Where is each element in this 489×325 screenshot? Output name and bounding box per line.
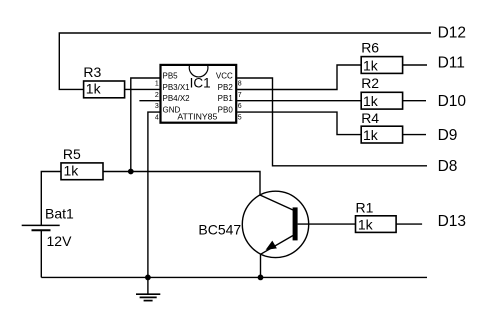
resistor R4 xyxy=(361,110,402,143)
pin number 3 xyxy=(155,103,159,110)
svg-text:VCC: VCC xyxy=(216,71,233,80)
svg-text:3: 3 xyxy=(155,103,159,110)
pin number 6 xyxy=(238,103,242,110)
wire: R2 to D10 xyxy=(403,100,426,102)
wire: R5 right to transistor collector xyxy=(103,172,260,196)
svg-text:D8: D8 xyxy=(438,158,458,175)
pin number 8 xyxy=(238,80,242,87)
node junction dot emitter rail xyxy=(258,275,264,281)
pin number 4 xyxy=(155,115,159,122)
svg-text:2: 2 xyxy=(155,92,159,99)
wire: IC pin 7 (PB2) to R6 xyxy=(237,65,361,90)
wire: D12 net (top rail to R3 left) xyxy=(59,33,431,89)
svg-text:R3: R3 xyxy=(83,64,101,80)
node D8 xyxy=(438,158,458,175)
svg-text:8: 8 xyxy=(238,80,242,87)
wire: R3 right to IC pin 2 xyxy=(125,88,160,90)
svg-text:D11: D11 xyxy=(438,54,465,71)
node D11 xyxy=(438,54,465,71)
svg-text:R6: R6 xyxy=(361,39,379,55)
wire: battery + to R5 left xyxy=(41,172,61,226)
pin label PB2 xyxy=(218,83,234,92)
svg-text:D13: D13 xyxy=(438,213,466,230)
op-amp U1: IC1 ATTINY85 body xyxy=(161,65,237,123)
pin label VCC xyxy=(216,71,233,80)
pin label PB4/X2 xyxy=(163,94,191,103)
pin label PB0 xyxy=(218,106,234,115)
svg-text:1k: 1k xyxy=(86,81,102,97)
resistor R6 xyxy=(361,39,402,73)
wire: IC pin 4 (GND) down to ground rail xyxy=(148,112,160,277)
node junction dot PB5/R5 xyxy=(128,169,134,175)
wire: R1 to D13 xyxy=(396,223,422,225)
wire: base to R1 xyxy=(298,223,356,225)
svg-text:R2: R2 xyxy=(361,75,379,91)
wire: R4 to D9 xyxy=(403,134,426,136)
svg-text:D9: D9 xyxy=(438,127,458,144)
transistor Q1 BC547 xyxy=(198,191,308,257)
pin label GND xyxy=(163,106,181,115)
svg-text:PB2: PB2 xyxy=(218,83,234,92)
wire: IC pin 1 (PB5) stub down to node xyxy=(131,78,160,172)
pin label PB1 xyxy=(218,94,234,103)
node D10 xyxy=(438,93,467,110)
pin label PB5 xyxy=(163,71,179,80)
svg-text:1k: 1k xyxy=(363,93,379,109)
wire: IC pin 6 (PB1) to R2 xyxy=(237,100,361,102)
resistor R5 xyxy=(61,146,103,180)
svg-text:1: 1 xyxy=(155,80,159,87)
svg-text:6: 6 xyxy=(238,103,242,110)
wire: R6 to D11 xyxy=(403,64,427,66)
svg-text:PB5: PB5 xyxy=(163,71,179,80)
wire: IC pin 3 (PB4/X2) stub xyxy=(139,100,159,102)
svg-text:4: 4 xyxy=(155,115,159,122)
pin label PB3/X1 xyxy=(163,83,191,92)
svg-text:PB0: PB0 xyxy=(218,106,234,115)
node D9 xyxy=(438,127,458,144)
resistor R2 xyxy=(361,75,402,109)
battery Bat1 xyxy=(22,205,74,249)
wire: IC pin 5 (PB0) to R4 xyxy=(237,112,361,135)
svg-text:R4: R4 xyxy=(361,110,379,126)
svg-text:PB4/X2: PB4/X2 xyxy=(163,94,191,103)
svg-text:ATTINY85: ATTINY85 xyxy=(177,111,217,121)
node junction dot GND rail xyxy=(145,275,151,281)
ground xyxy=(136,277,160,300)
svg-text:PB1: PB1 xyxy=(218,94,234,103)
wire: IC pin 8 (VCC) to D8 xyxy=(237,78,427,166)
svg-text:IC1: IC1 xyxy=(190,75,211,90)
pin number 2 xyxy=(155,92,159,99)
pin number 5 xyxy=(238,115,242,122)
svg-text:PB3/X1: PB3/X1 xyxy=(163,83,191,92)
svg-text:BC547: BC547 xyxy=(198,222,241,238)
svg-text:D12: D12 xyxy=(438,24,466,41)
svg-text:Bat1: Bat1 xyxy=(45,205,74,221)
resistor R1 xyxy=(356,200,397,233)
wire: bottom ground rail xyxy=(41,276,427,278)
node D13 xyxy=(438,213,466,230)
svg-text:7: 7 xyxy=(238,92,242,99)
pin number 1 xyxy=(155,80,159,87)
wire: battery - down to ground rail xyxy=(40,230,42,277)
svg-text:D10: D10 xyxy=(438,93,467,110)
node D12 xyxy=(438,24,466,41)
wire: emitter to rail xyxy=(260,254,262,277)
svg-text:R1: R1 xyxy=(356,200,374,216)
svg-text:5: 5 xyxy=(238,115,242,122)
svg-text:1k: 1k xyxy=(358,216,374,232)
svg-text:1k: 1k xyxy=(363,127,379,143)
svg-text:12V: 12V xyxy=(47,233,73,249)
pin number 7 xyxy=(238,92,242,99)
svg-text:GND: GND xyxy=(163,106,181,115)
svg-text:1k: 1k xyxy=(64,163,80,179)
resistor R3 xyxy=(83,64,124,98)
svg-text:1k: 1k xyxy=(363,57,379,73)
svg-text:R5: R5 xyxy=(63,146,81,162)
